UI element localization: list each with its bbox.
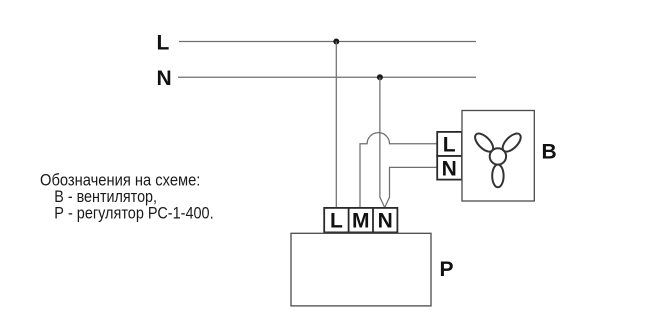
svg-text:В: В: [542, 141, 557, 164]
svg-text:Р - регулятор РС-1-400.: Р - регулятор РС-1-400.: [54, 204, 213, 223]
regulator terminal divider 2: [372, 208, 374, 233]
regulator terminal block outline: [324, 208, 397, 233]
regulator P box: [291, 233, 431, 306]
svg-text:N: N: [157, 67, 172, 90]
svg-text:Р: Р: [440, 258, 454, 281]
fan icon bottom blade: [492, 165, 503, 188]
wire from fan terminal N to regulator terminal N: [385, 167, 438, 207]
regulator terminal divider 1: [348, 208, 350, 233]
svg-text:M: M: [352, 210, 370, 233]
wire N bus: [178, 76, 476, 78]
wire L bus: [179, 41, 476, 43]
svg-text:N: N: [378, 210, 393, 233]
junction dot on L bus: [333, 39, 339, 45]
svg-text:L: L: [330, 210, 343, 233]
svg-text:N: N: [442, 157, 457, 180]
svg-text:L: L: [157, 32, 170, 55]
wire from N bus to regulator terminal N: [380, 77, 385, 207]
wire from regulator terminal M to fan terminal L (with hop over N wire): [360, 133, 437, 208]
fan terminal L box: [437, 132, 462, 156]
fan icon hub: [490, 148, 506, 164]
fan B box: [462, 111, 534, 202]
svg-text:L: L: [443, 134, 456, 157]
junction dot on N bus: [377, 74, 383, 80]
wire from L bus to regulator terminal L: [335, 42, 337, 208]
fan icon upper-left blade: [472, 131, 496, 155]
fan terminal N box: [437, 156, 462, 180]
fan icon upper-right blade: [500, 131, 524, 155]
